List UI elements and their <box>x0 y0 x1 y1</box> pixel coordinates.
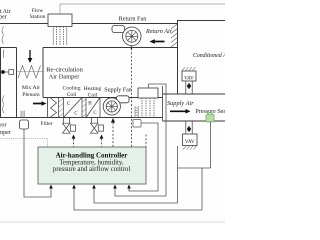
svg-text:mper: mper <box>0 130 11 136</box>
controller input arrows <box>49 185 131 189</box>
conditioned space wall <box>177 21 179 95</box>
svg-text:mper: mper <box>0 15 7 21</box>
wire from return flow station (top) <box>60 4 225 14</box>
svg-text:Air Damper: Air Damper <box>49 73 81 80</box>
return air arrow <box>150 39 165 44</box>
svg-text:C: C <box>93 111 96 116</box>
svg-text:Station: Station <box>30 14 46 20</box>
supply flow station box <box>138 88 158 98</box>
wire loop VAV2-pressure <box>178 167 211 169</box>
return fan volute <box>112 26 125 33</box>
actuator wire <box>24 129 51 197</box>
wire: sensor A riser <box>141 123 158 191</box>
hatch band 1 <box>59 98 64 118</box>
VAV2 duct stubs <box>185 121 187 134</box>
left plenum box right edge <box>16 48 18 118</box>
supply air arrow <box>170 109 191 114</box>
humidifier ladder <box>135 106 138 118</box>
svg-text:Conditioned Air Sp: Conditioned Air Sp <box>193 53 225 59</box>
svg-text:C: C <box>67 102 70 107</box>
svg-text:Return Air: Return Air <box>145 28 173 35</box>
AHU bottom line <box>0 117 163 119</box>
svg-text:VAV: VAV <box>184 76 194 82</box>
svg-text:Mix Air: Mix Air <box>22 85 40 91</box>
V1 control dashed arrow <box>72 135 76 139</box>
outdoor damper actuator spring <box>21 111 24 118</box>
return duct bottom / AHU top line <box>43 47 178 49</box>
duct inlet wall <box>47 98 49 118</box>
conditioned space top line <box>178 21 226 24</box>
dashed stub into controller top right <box>145 135 147 148</box>
wire: pressure sensor / VAV2 to controller <box>94 189 178 204</box>
hatch band 2 <box>85 98 87 118</box>
VAV1 hatch (ceiling) <box>182 67 196 71</box>
cooling coil valve V1 <box>63 123 76 133</box>
svg-text:Coil: Coil <box>67 92 77 98</box>
wire: supply sensor to controller <box>129 189 158 192</box>
supply fan <box>103 98 120 115</box>
supply duct top line <box>163 93 226 95</box>
svg-text:C: C <box>74 112 77 117</box>
svg-text:Plenum: Plenum <box>22 92 40 98</box>
svg-text:H: H <box>88 102 92 107</box>
plenum interior: damper linkage <box>3 50 5 58</box>
down arrow into mix plenum <box>28 50 33 63</box>
svg-text:Heating: Heating <box>84 86 102 92</box>
svg-text:Air-handling Controller: Air-handling Controller <box>56 152 128 160</box>
sensor box A (supply air sensor) <box>133 120 141 128</box>
supply fan sensor arrow <box>111 118 115 123</box>
return duct top line <box>0 23 178 25</box>
flow station box (return duct) <box>48 14 72 27</box>
bottom frame line <box>0 221 225 223</box>
exhaust damper blades <box>2 27 4 45</box>
svg-text:pressure and airflow control: pressure and airflow control <box>53 166 131 173</box>
flow station measuring grid <box>53 27 67 46</box>
wire: zone sensor to controller <box>74 189 202 211</box>
VAV2 box <box>183 134 198 146</box>
Air-handling Controller box <box>38 147 146 184</box>
VAV2 wire <box>177 146 179 203</box>
pressure sensor wire <box>210 122 212 169</box>
VAV2 damper <box>188 126 190 132</box>
wire: supply flow station to controller <box>115 189 166 197</box>
svg-text:Supply Fan: Supply Fan <box>104 88 132 94</box>
heating coil valve V2 <box>91 123 104 133</box>
supply flow station grid <box>142 98 154 117</box>
supply flow station wire <box>149 84 167 196</box>
cooling coil box <box>81 98 83 118</box>
dotted control line to dampers <box>0 139 48 148</box>
svg-text:Cooling: Cooling <box>62 86 80 92</box>
VAV1 duct stubs <box>185 81 187 94</box>
supply duct bottom line <box>163 120 226 122</box>
return fan <box>123 27 142 46</box>
outdoor damper actuator box <box>20 120 29 129</box>
V2 control dashed arrow <box>100 135 104 139</box>
wall hatch at return grille <box>171 24 177 47</box>
VAV1 damper <box>188 83 190 89</box>
svg-text:Supply Air: Supply Air <box>167 100 194 107</box>
pressure sensor <box>206 115 214 123</box>
supply fan volute <box>117 96 130 103</box>
return fan sensor dashed line <box>131 49 133 148</box>
AHU right edge <box>162 86 164 121</box>
right arrow into AHU <box>33 101 47 106</box>
coil pipes <box>64 118 98 124</box>
svg-text:Return Fan: Return Fan <box>119 16 147 23</box>
mixing damper (zigzag) <box>17 71 44 73</box>
plenum interior: lower damper blades <box>3 96 5 114</box>
heating coil box <box>99 98 101 118</box>
VAV1 box <box>182 71 196 81</box>
return fan sensor tap <box>130 46 132 48</box>
svg-text:Re-circulation: Re-circulation <box>46 66 83 73</box>
svg-text:Flow: Flow <box>32 8 44 14</box>
left plenum box top <box>0 47 17 49</box>
left plenum box left edge <box>0 48 2 118</box>
VAV2 hatch (discharge) <box>183 146 197 150</box>
AHU main box left edge <box>42 48 44 98</box>
svg-text:Filter: Filter <box>40 121 52 127</box>
wire: zone sensor riser <box>201 168 203 210</box>
coil section top line <box>43 97 163 99</box>
svg-text:oor: oor <box>0 123 7 129</box>
svg-text:VAV: VAV <box>185 139 195 145</box>
filter zigzag <box>51 98 57 117</box>
